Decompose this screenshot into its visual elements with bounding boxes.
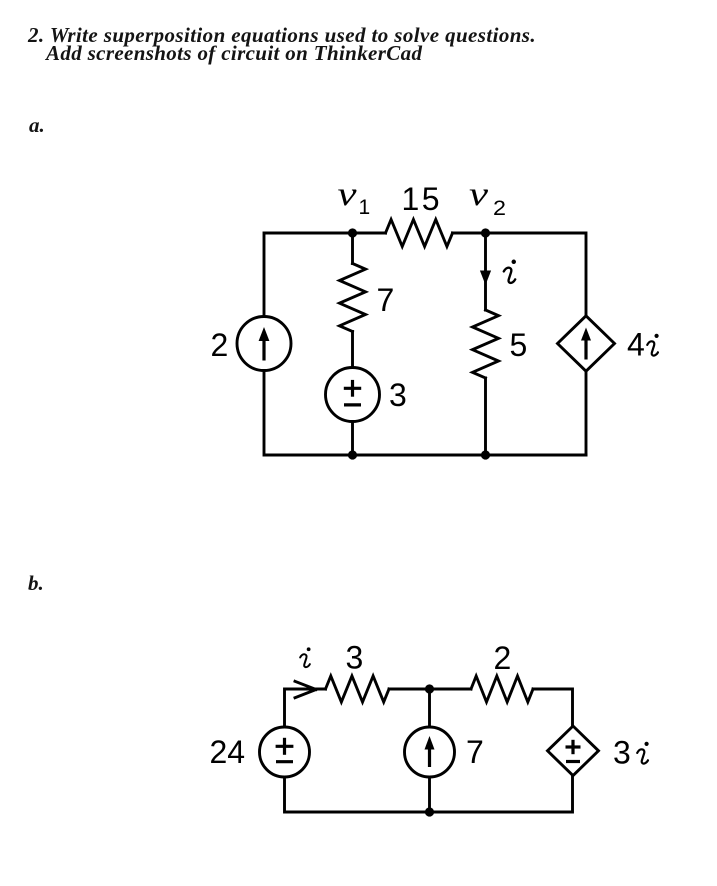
wire: circuit a top-left segment	[264, 233, 386, 317]
resistor 7 zigzag	[340, 264, 366, 332]
part label a.	[29, 113, 45, 138]
part label b.	[28, 571, 44, 596]
wire: circuit b middle branch bottom	[428, 777, 431, 812]
svg-text:2: 2	[494, 640, 512, 676]
svg-text:v: v	[338, 176, 358, 213]
svg-text:2: 2	[211, 327, 229, 363]
node v1 junction dot	[348, 228, 357, 237]
wire: middle branch top	[351, 233, 354, 264]
label i (circuit a)	[504, 260, 516, 283]
svg-text:v: v	[469, 176, 489, 213]
svg-text:4: 4	[627, 327, 645, 363]
svg-text:7: 7	[377, 282, 395, 318]
svg-text:2: 2	[493, 197, 506, 220]
svg-text:24: 24	[210, 734, 246, 770]
resistor 5 zigzag	[473, 310, 499, 378]
svg-text:3: 3	[389, 377, 407, 413]
wire: circuit b top-left segment	[285, 689, 326, 727]
voltage source V1 circle (3 V)	[326, 368, 380, 422]
current i direction arrow (open)	[295, 681, 316, 697]
dependent source 4i arrow	[581, 328, 591, 360]
svg-text:1: 1	[359, 196, 371, 219]
wire: circuit a left bottom segment	[264, 371, 586, 456]
resistor 3 zigzag	[326, 676, 389, 702]
dependent source 3i plus-minus symbol	[566, 740, 581, 762]
label i (circuit b)	[300, 647, 310, 667]
wire: v2 branch top with current i	[484, 233, 487, 310]
current i arrowhead	[480, 271, 491, 286]
resistor 15 zigzag	[386, 220, 453, 247]
label 3i	[613, 735, 649, 771]
heading line 1	[28, 23, 536, 48]
wire: v2 branch bottom	[484, 378, 487, 455]
voltage source 24 circle	[260, 727, 310, 777]
wire: circuit b left bottom segment	[285, 777, 430, 812]
voltage source V1 plus-minus symbol	[344, 380, 361, 405]
current source I1 arrow	[259, 327, 270, 361]
dependent current source diamond (4i)	[558, 316, 615, 371]
node: circuit b bottom junction dot	[425, 807, 434, 816]
label 4i	[627, 327, 659, 363]
wire: middle branch bottom	[351, 422, 354, 456]
node: circuit b top junction dot	[425, 684, 434, 693]
dependent voltage source diamond (3i)	[548, 726, 599, 776]
voltage source 24 plus-minus symbol	[276, 738, 294, 762]
node: bottom junction under v1	[348, 450, 357, 459]
svg-text:7: 7	[466, 734, 484, 770]
svg-text:3: 3	[613, 735, 631, 771]
wire: circuit b top-middle segment	[389, 688, 471, 691]
wire: circuit a top-right segment	[453, 233, 587, 316]
svg-text:5: 5	[510, 327, 528, 363]
svg-text:15: 15	[402, 181, 443, 217]
svg-text:3: 3	[346, 640, 364, 676]
wire: circuit a right bottom segment	[585, 371, 588, 455]
resistor 2 zigzag	[471, 676, 533, 702]
node: bottom junction under v2	[481, 450, 490, 459]
node v2 junction dot	[481, 228, 490, 237]
wire: middle branch between resistor and source	[351, 332, 354, 368]
current source 7 arrow	[425, 736, 435, 767]
wire: circuit b right bottom segment	[430, 776, 573, 812]
wire: circuit b top-right segment	[533, 689, 573, 726]
wire: circuit b middle branch top	[428, 689, 431, 727]
heading line 2	[46, 41, 422, 66]
current source I1 circle (2 A)	[237, 317, 291, 371]
current source 7 circle	[405, 727, 455, 777]
